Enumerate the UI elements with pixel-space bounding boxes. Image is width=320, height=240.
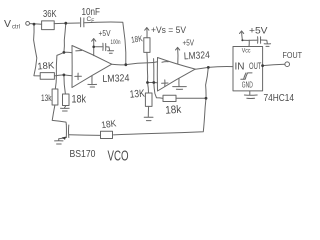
svg-text:LM324: LM324 [102,73,130,85]
svg-text:18k: 18k [165,104,182,117]
svg-text:100n: 100n [111,40,121,46]
svg-text:+5V: +5V [99,29,112,38]
svg-text:FOUT: FOUT [283,50,303,60]
svg-text:OUT: OUT [249,61,262,71]
svg-text:+Vs = 5V: +Vs = 5V [151,25,186,35]
svg-text:18K: 18K [101,118,118,131]
svg-text:V: V [4,18,11,30]
svg-text:13k: 13k [41,93,52,103]
svg-text:IN: IN [235,62,245,73]
svg-text:F: F [91,18,94,24]
svg-text:VCO: VCO [108,147,129,164]
svg-text:18k: 18k [72,94,87,106]
svg-text:+5V: +5V [249,26,268,36]
svg-text:18K: 18K [37,60,55,72]
svg-text:LM324: LM324 [184,50,211,62]
svg-text:13K: 13K [129,88,145,101]
svg-text:36K: 36K [43,9,57,20]
svg-text:ctrl: ctrl [12,25,20,31]
svg-text:Vcc: Vcc [242,48,251,55]
svg-text:BS170: BS170 [70,148,96,160]
svg-text:18K: 18K [130,33,143,45]
svg-text:GND: GND [242,81,253,90]
svg-text:+5V: +5V [183,38,195,47]
svg-text:74HC14: 74HC14 [264,93,295,104]
